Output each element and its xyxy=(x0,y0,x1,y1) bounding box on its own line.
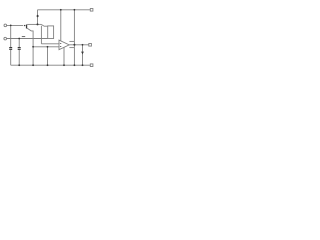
wire right bus vertical xyxy=(73,10,75,65)
terminal square top right xyxy=(90,9,93,12)
wire drain horizontal xyxy=(27,23,41,25)
junction dot V+ rail xyxy=(60,9,62,11)
wire supply stub upper xyxy=(69,40,74,42)
transistor Q1 gate arrow xyxy=(24,25,26,27)
wire source to ground xyxy=(27,28,33,65)
terminal circle input T1 xyxy=(4,24,7,27)
junction dot ground R2 xyxy=(47,64,49,66)
junction dot ground right bus xyxy=(74,64,76,66)
resistor R1 box xyxy=(48,26,54,39)
label dash above T2 wire xyxy=(22,36,25,38)
wire output load vertical xyxy=(82,45,84,65)
wire op-amp inverting input xyxy=(33,46,59,48)
wire drain jog diagonal xyxy=(41,24,48,26)
wire collector drop xyxy=(37,10,39,25)
wire op-amp noninverting input xyxy=(41,43,59,45)
junction dot T2 branch xyxy=(18,38,20,40)
junction dot drain node xyxy=(37,23,39,25)
wire op-amp output xyxy=(69,44,89,46)
bottom rail (ground) xyxy=(11,64,91,66)
wire feedback vertical xyxy=(40,26,42,44)
junction dot ground source xyxy=(32,64,34,66)
wire input T2 horizontal xyxy=(7,38,48,40)
background xyxy=(0,0,100,72)
junction dot collector marker xyxy=(37,15,39,18)
junction dot ground V- xyxy=(63,64,65,66)
terminal square bottom right xyxy=(90,64,93,67)
terminal square output xyxy=(89,44,92,47)
transistor Q1 channel bar xyxy=(26,25,27,29)
wire C2 branch vertical xyxy=(18,39,20,48)
junction dot ground T2 xyxy=(18,64,20,66)
junction dot R2 tap xyxy=(47,46,49,48)
junction dot ground load xyxy=(82,64,84,66)
junction dot output node xyxy=(73,44,75,46)
junction dot right bus rail xyxy=(74,9,76,11)
wire supply stub lower xyxy=(69,47,74,49)
current arrow output xyxy=(81,52,84,55)
wire C1 branch vertical xyxy=(10,25,12,47)
wire R2 branch vertical xyxy=(47,47,49,65)
junction dot T1 branch xyxy=(10,25,12,27)
capacitor C2 plates xyxy=(18,47,21,48)
wire V- supply to ground xyxy=(63,47,65,65)
op-amp minus mark xyxy=(60,45,61,48)
terminal circle input T2 xyxy=(4,37,7,40)
capacitor C1 plates xyxy=(9,47,12,48)
junction dot inverting tap xyxy=(32,46,34,48)
wire input T1 horizontal xyxy=(7,24,24,26)
op-amp plus mark xyxy=(60,42,61,45)
junction dot load tap xyxy=(82,44,84,46)
top rail (V+) xyxy=(38,9,91,11)
op-amp U1 triangle xyxy=(59,40,69,50)
wire V+ supply to op-amp xyxy=(60,10,62,41)
